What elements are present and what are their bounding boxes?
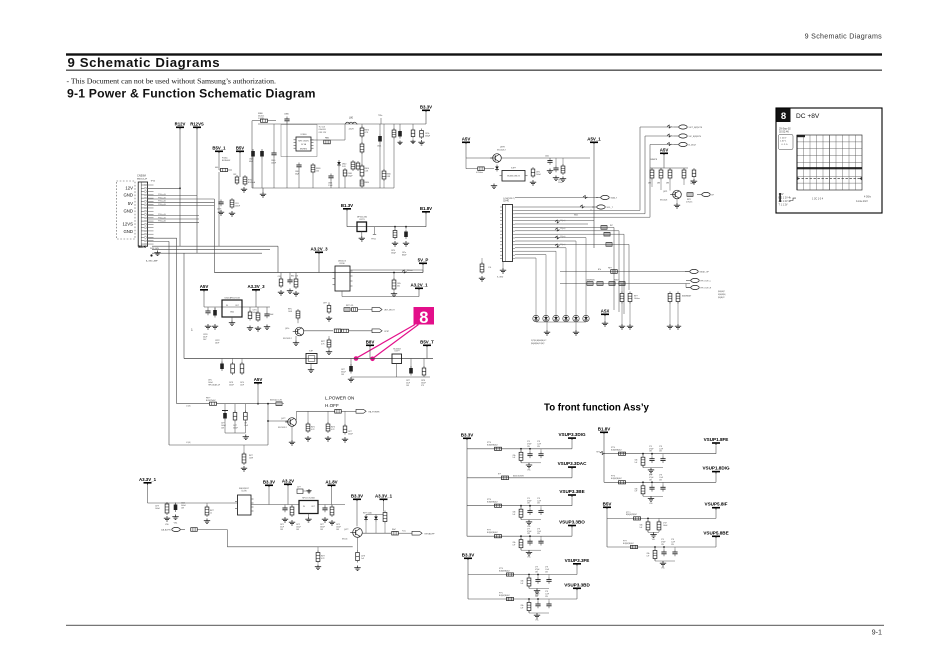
resistor R442 <box>604 232 610 236</box>
capacitor C811 <box>279 277 283 288</box>
resistor R816 <box>561 164 565 175</box>
wire IC841 bottom rail <box>396 364 398 378</box>
ground Q830 <box>295 336 297 341</box>
svg-text:A5V: A5V <box>660 147 669 152</box>
svg-text:VSUP5.8IF: VSUP5.8IF <box>705 502 728 507</box>
flag A5V_1 rt <box>587 136 601 144</box>
svg-text:560pF: 560pF <box>425 136 431 138</box>
wire left bus vertical B <box>176 238 178 404</box>
svg-text:B8V: B8V <box>366 339 375 344</box>
svg-text:PR0g-gN: PR0g-gN <box>158 204 166 206</box>
svg-text:PR0g-gN: PR0g-gN <box>158 214 166 216</box>
svg-text:A3.2V_3: A3.2V_3 <box>310 246 328 251</box>
resistor R441 <box>601 226 607 230</box>
svg-text:1 56: 1 56 <box>488 267 491 269</box>
capacitor C860 <box>271 151 276 158</box>
svg-text:16V: 16V <box>336 529 340 531</box>
svg-text:PR0g-gN: PR0g-gN <box>158 197 166 199</box>
svg-text:C?8: C?8 <box>545 567 548 569</box>
wire B1.3V drop <box>346 211 348 227</box>
svg-text:10V: 10V <box>659 479 663 481</box>
flag VSUP1.8DIG <box>702 466 729 474</box>
resistor R423 <box>290 505 294 517</box>
svg-text:R12V: R12V <box>175 121 186 126</box>
arrow connector KEY_OFF <box>412 531 422 535</box>
resistor R433 <box>316 551 320 564</box>
capacitor VSUP3.3BE C2 <box>527 508 532 515</box>
svg-text:561: 561 <box>397 286 400 288</box>
wire A3.3V_3 drop <box>255 292 257 307</box>
svg-text:C8??: C8?? <box>323 303 327 305</box>
svg-text:R??: R?? <box>498 474 501 476</box>
svg-text:KSC1623: KSC1623 <box>660 200 667 202</box>
svg-text:1.2nF: 1.2nF <box>537 443 541 445</box>
svg-text:FT? 1: FT? 1 <box>626 512 630 514</box>
svg-text:AVT_MOUT: AVT_MOUT <box>385 309 396 312</box>
capacitor C434 <box>356 551 360 563</box>
connector CN50M labels <box>122 185 133 234</box>
resistor R425 <box>330 505 334 517</box>
svg-text:5.6V: 5.6V <box>342 166 346 168</box>
svg-text:B3.3V: B3.3V <box>263 479 275 484</box>
ground R409 <box>241 466 247 471</box>
flag B5V <box>236 145 244 153</box>
svg-text:440: 440 <box>215 167 218 169</box>
callout leader line 1 <box>356 325 415 359</box>
wire Q402 bottom row <box>227 546 352 548</box>
wire main bus <box>214 272 423 274</box>
svg-text:B?b: B?b <box>598 269 601 271</box>
wire row VSUP5.8BE <box>607 546 716 548</box>
legend box frame <box>776 108 882 213</box>
test point TPCb <box>374 227 376 235</box>
ground VSUP5.8BE <box>654 559 656 562</box>
flag VSUP5.8IF <box>705 502 728 510</box>
arrow connector FP80 <box>372 329 382 333</box>
ground CN40 <box>502 262 504 269</box>
svg-text:5V(pw): 5V(pw) <box>560 236 566 238</box>
svg-text:4.7Kohm: 4.7Kohm <box>476 172 483 174</box>
svg-text:D(T)B (M)00(M)-4?: D(T)B (M)00(M)-4? <box>531 340 546 342</box>
svg-text:BMD04-4P: BMD04-4P <box>137 179 148 181</box>
svg-text:Q4??: Q4?? <box>281 418 285 420</box>
svg-text:C8b: C8b <box>635 460 638 462</box>
ground ASX <box>604 317 606 322</box>
resistor RC1 <box>650 168 654 180</box>
wire bundle row 3 <box>152 252 262 254</box>
svg-text:P4kw: P4kw <box>402 531 407 533</box>
svg-text:16V: 16V <box>280 529 284 531</box>
resistor RB10 <box>360 164 364 178</box>
svg-text:5V(pw): 5V(pw) <box>560 220 566 222</box>
ground VSUP3.3FE <box>528 586 530 589</box>
svg-text:100pF: 100pF <box>348 175 354 177</box>
svg-text:L.POWER ON: L.POWER ON <box>325 396 354 401</box>
wire to AVT arrow <box>358 309 372 311</box>
svg-text:R8?? 47k: R8?? 47k <box>346 305 353 307</box>
svg-text:OUT: OUT <box>311 506 315 508</box>
svg-text:MP11 17D-SB4: MP11 17D-SB4 <box>302 498 314 500</box>
ground C823 <box>218 210 224 215</box>
oval connector VIC_BRN <box>674 134 702 138</box>
resistor R446 <box>628 292 632 304</box>
header thick rule <box>66 53 882 55</box>
svg-text:PR0g-gN: PR0g-gN <box>158 201 166 203</box>
resistor R431 <box>392 531 399 535</box>
wire flag drop VSUP3.3DIG <box>571 440 573 449</box>
wire CN50M 12V row <box>148 187 180 189</box>
wire CN40 fan <box>515 210 650 258</box>
svg-text:BL(M)P(M)40Z: BL(M)P(M)40Z <box>623 543 634 545</box>
wire A5V_1 vertical <box>593 145 595 249</box>
svg-text:OUT: OUT <box>235 305 240 307</box>
svg-text:IC810: IC810 <box>339 263 345 265</box>
wire flag drop VSUP3.3DAC <box>571 469 573 478</box>
wire row VSUP3.3BD <box>468 598 577 600</box>
svg-text:KEY(B)OFF: KEY(B)OFF <box>425 533 436 535</box>
svg-text:VSUP3.3BE: VSUP3.3BE <box>559 489 584 494</box>
resistor RB71 <box>360 142 364 154</box>
svg-text:(M)?wGpw 1.2M: (M)?wGpw 1.2M <box>270 400 282 402</box>
svg-text:C?8: C?8 <box>659 446 662 448</box>
ground C434 <box>354 566 360 571</box>
capacitor C411 <box>174 503 178 513</box>
flag A5V mid <box>200 284 209 292</box>
svg-text:5V(pw): 5V(pw) <box>560 244 566 246</box>
svg-text:BL(M)P(M)40Z: BL(M)P(M)40Z <box>487 445 498 447</box>
svg-text:CN50M: CN50M <box>137 174 146 178</box>
resistor FB843 <box>334 329 341 333</box>
resistor R809 <box>478 167 485 171</box>
svg-text:FT?x: FT?x <box>499 592 503 594</box>
svg-text:CN40: CN40 <box>503 201 510 203</box>
svg-text:1uF: 1uF <box>635 491 638 493</box>
flag B1.3V <box>341 203 353 211</box>
arrow connector HA_POWER <box>356 409 366 413</box>
svg-text:(M)SW(M)8?: (M)SW(M)8? <box>682 296 691 298</box>
wire CN50M signal row 1 <box>148 195 197 197</box>
ground R412 <box>204 519 210 524</box>
flag VSUP5.8BE <box>703 530 728 538</box>
resistor VSUP3.3BE C1 <box>519 507 523 519</box>
capacitor C422 <box>282 506 287 513</box>
ground R845 <box>326 350 332 355</box>
wire A5V rt drop <box>465 145 467 159</box>
transistor Q402 <box>350 528 362 538</box>
wire B8V drop <box>369 348 371 359</box>
resistor R440 <box>480 262 484 274</box>
diode D401 <box>364 515 368 522</box>
resistor R412 <box>205 505 209 517</box>
wire left bus vertical A <box>213 199 215 273</box>
wire lpower caps rail <box>224 421 226 434</box>
ground C421 <box>306 489 311 493</box>
svg-text:4.5(M): 4.5(M) <box>186 442 191 444</box>
svg-text:02:52:46: 02:52:46 <box>779 131 789 134</box>
wire row VSUP3.3DAC <box>467 477 572 479</box>
svg-text:(M)(M)4?: (M)(M)4? <box>718 297 725 299</box>
ground PSU rail <box>262 188 264 192</box>
flag B5V dist <box>603 501 612 509</box>
svg-text:ASX: ASX <box>601 308 610 313</box>
test point TP8a <box>380 118 382 124</box>
wire bl row2 <box>251 504 299 506</box>
capacitor VSUP3.3BE C3 <box>538 508 543 515</box>
capacitor VSUP1.8FE C3 <box>660 456 665 463</box>
svg-text:To front function Ass’y: To front function Ass’y <box>544 403 650 414</box>
svg-text:ON=5V5: ON=5V5 <box>319 129 326 131</box>
wire IC to L80 <box>310 139 345 141</box>
wire B5V dist vertical <box>606 510 608 548</box>
capacitor C857 <box>240 362 244 375</box>
svg-text:16V: 16V <box>527 503 531 505</box>
IC812 reset <box>500 171 528 182</box>
svg-text:5V 3A: 5V 3A <box>301 143 307 146</box>
flag A5V lpower <box>254 377 263 385</box>
svg-text:- This Document can not be use: - This Document can not be used without … <box>67 77 277 86</box>
svg-text:12VS: 12VS <box>122 222 133 227</box>
svg-text:1.2nF: 1.2nF <box>545 594 549 596</box>
wire bl rail <box>148 502 238 504</box>
svg-text:1uF: 1uF <box>513 545 516 547</box>
resistor R443 <box>606 243 612 247</box>
flag VSUP1.8FE <box>704 437 729 445</box>
svg-text:C(M)WS(M): C(M)WS(M) <box>586 280 595 282</box>
diode D402 <box>374 515 378 522</box>
svg-text:47?pF: 47?pF <box>535 569 540 571</box>
svg-text:C?9: C?9 <box>535 591 538 593</box>
flag R12V <box>175 121 186 129</box>
resistor R845 <box>327 338 331 349</box>
svg-text:VSUP3.3DIG: VSUP3.3DIG <box>558 432 585 437</box>
svg-text:16V: 16V <box>296 529 300 531</box>
svg-text:16V: 16V <box>535 572 539 574</box>
wire A5V row <box>203 292 205 307</box>
svg-text:16V: 16V <box>527 533 531 535</box>
svg-text:C8b: C8b <box>521 581 524 583</box>
svg-text:KSC16: KSC16 <box>342 539 347 541</box>
svg-text:BL(M)P(M)40Z: BL(M)P(M)40Z <box>499 570 510 572</box>
svg-text:16nF: 16nF <box>215 343 220 345</box>
svg-text:B1.8V: B1.8V <box>598 426 611 431</box>
IC841 converter <box>392 354 402 364</box>
svg-text:C8b: C8b <box>647 553 650 555</box>
scope trace <box>797 167 862 169</box>
svg-text:SCL_7: SCL_7 <box>607 207 614 209</box>
scope bottom readout <box>779 193 872 206</box>
svg-text:KSC1623-Y: KSC1623-Y <box>283 338 293 340</box>
svg-text:1.3V 1: 1.3V 1 <box>780 141 787 143</box>
ground R822 <box>241 187 247 192</box>
flag VSUP3.3BO <box>559 520 585 528</box>
svg-text:L80: L80 <box>349 117 354 120</box>
transistor Q808 <box>490 154 501 163</box>
svg-text:1uF: 1uF <box>521 583 524 585</box>
flag VSUP3.3DAC <box>558 461 588 469</box>
svg-text:47?pF: 47?pF <box>649 448 654 450</box>
svg-text:R4?: R4? <box>610 225 613 227</box>
svg-text:C?9: C?9 <box>661 539 664 541</box>
svg-text:B5V: B5V <box>236 145 244 150</box>
capacitor C410 <box>165 502 169 515</box>
wire bundle drop <box>277 246 279 272</box>
svg-text:VSL: VSL <box>535 620 538 622</box>
svg-text:VSUP3.3BO: VSUP3.3BO <box>559 520 585 525</box>
capacitor C823 <box>218 200 223 207</box>
svg-text:B5V_1: B5V_1 <box>212 145 226 150</box>
ground C408 <box>342 437 348 442</box>
wire PSU top rail <box>258 123 426 125</box>
svg-text:FT?7: FT?7 <box>623 540 627 542</box>
svg-text:IC8?: IC8? <box>309 351 313 353</box>
svg-text:C?9: C?9 <box>527 441 530 443</box>
flag VSUP3.3BD <box>564 582 590 590</box>
capacitor VSUP3.3FE C3 <box>546 577 551 584</box>
IC801 regulator <box>357 222 367 232</box>
svg-text:1/16W: 1/16W <box>258 118 264 120</box>
capacitor C855 <box>220 362 224 372</box>
svg-text:A3.2V_1: A3.2V_1 <box>410 282 428 287</box>
ground R816 <box>560 177 566 182</box>
svg-text:B(M)(M)P(M)0?: B(M)(M)P(M)0? <box>626 514 637 516</box>
svg-text:C?b?: C?b? <box>663 523 667 525</box>
svg-text:GND: GND <box>123 193 133 198</box>
resistor VSUP1.8DIG C1 <box>641 484 645 496</box>
svg-text:1uF: 1uF <box>513 457 516 459</box>
svg-text:Q8?x: Q8?x <box>285 328 289 330</box>
wire B5V drop <box>239 154 241 178</box>
svg-text:PR0g-gN: PR0g-gN <box>158 217 166 219</box>
wire A3.3V_1 q drop <box>383 502 385 512</box>
svg-text:DC +8V: DC +8V <box>796 113 820 120</box>
ferrite FB401 <box>210 402 217 405</box>
wire B3.3V dist2 vertical <box>467 561 469 600</box>
svg-text:IC4?0: IC4?0 <box>241 490 247 492</box>
svg-text:C81: C81 <box>278 276 281 278</box>
svg-text:1.2nF: 1.2nF <box>659 477 663 479</box>
ground IC801 <box>361 232 363 237</box>
svg-text:4 0S/s: 4 0S/s <box>864 195 872 198</box>
svg-text:1/2W: 1/2W <box>249 458 253 460</box>
ground IC820 <box>231 317 233 321</box>
wire oval drops <box>640 126 674 128</box>
svg-text:KSC1623-Y: KSC1623-Y <box>278 427 288 429</box>
ground C842 <box>397 141 402 145</box>
ferrite FT?6 <box>619 481 626 484</box>
svg-text:C?8: C?8 <box>537 498 540 500</box>
flag A3.3V_1 bl <box>139 477 157 485</box>
svg-text:R(M)?: R(M)? <box>614 280 619 282</box>
capacitor VSUP3.3FE C2 <box>535 577 540 584</box>
resistor pair R841 R842 <box>344 308 350 312</box>
capacitor C817 <box>692 168 696 179</box>
svg-text:B1.8V: B1.8V <box>420 206 432 211</box>
oval connector DA_AGN <box>161 527 185 531</box>
svg-text:FT?6: FT?6 <box>487 499 491 501</box>
svg-text:BL(M)P(M)40Z: BL(M)P(M)40Z <box>487 502 498 504</box>
svg-text:TK?b: TK?b <box>596 452 600 454</box>
svg-text:BL(M)P(M)40Z: BL(M)P(M)40Z <box>499 595 510 597</box>
flag B3.3V q <box>351 493 363 501</box>
capacitor VSUP1.8DIG C3 <box>660 485 665 492</box>
svg-text:PR0g-gN: PR0g-gN <box>158 194 166 196</box>
svg-text:C8b: C8b <box>513 542 516 544</box>
svg-text:47?pF: 47?pF <box>527 500 532 502</box>
svg-text:10nF: 10nF <box>240 384 244 386</box>
svg-text:100K: 100K <box>288 311 293 313</box>
ground Q401 emitter <box>291 427 293 441</box>
resistor R432 <box>191 528 198 532</box>
wire CN50M signal row 6 <box>148 218 199 220</box>
resistor VSUP3.3DIG C1 <box>519 450 523 462</box>
ferrite FB81 <box>221 168 228 171</box>
ground VSUP3.3BE <box>520 517 522 520</box>
ground C836 <box>326 316 332 321</box>
ground Q811 <box>676 199 678 203</box>
resistor R406 <box>306 422 310 433</box>
wire Q402 collector row <box>362 532 391 534</box>
svg-text:16V: 16V <box>320 529 324 531</box>
svg-text:16V: 16V <box>181 507 185 509</box>
resistor R430 <box>383 511 387 524</box>
capacitor C884 <box>328 174 333 181</box>
ground C81t <box>391 292 397 297</box>
svg-text:S_GND: S_GND <box>497 277 504 279</box>
capacitor C403 <box>233 411 237 423</box>
resistor RB40 <box>351 160 355 171</box>
flag B1.8V <box>420 206 432 214</box>
svg-text:C8b: C8b <box>635 488 638 490</box>
svg-text:560pF: 560pF <box>391 252 396 254</box>
svg-text:1.2nF: 1.2nF <box>545 569 549 571</box>
inductor L80 <box>346 122 357 124</box>
flag B1.8V dist <box>598 426 611 434</box>
svg-text:BL(M)P(M)40Z: BL(M)P(M)40Z <box>611 450 622 452</box>
svg-text:4R8: 4R8 <box>648 183 651 185</box>
svg-text:14V: 14V <box>221 427 225 429</box>
wire R831 stub <box>394 227 396 231</box>
wire IC810 right to bus <box>350 269 423 271</box>
flag A5V rt <box>462 136 471 144</box>
svg-text:9?F: 9?F <box>421 385 424 387</box>
wire column drops <box>362 124 413 166</box>
svg-text:VSUP1.8DIG: VSUP1.8DIG <box>702 466 729 471</box>
svg-text:HA_POWER: HA_POWER <box>369 411 380 414</box>
wire B5V_T drop <box>426 348 428 359</box>
svg-text:C8b: C8b <box>640 524 643 526</box>
scope dashed cursor <box>798 178 862 180</box>
resistor RB70 <box>360 126 364 138</box>
resistor C81t <box>392 278 396 291</box>
wire SDA row <box>515 197 598 199</box>
scope graticule <box>797 135 862 190</box>
resistor VSUP5.8IF C2 <box>657 520 661 532</box>
svg-text:FB85: FB85 <box>325 138 329 140</box>
flag A3.2V_1 <box>410 282 428 290</box>
svg-text:GND: GND <box>230 312 235 314</box>
svg-text:C?8: C?8 <box>659 475 662 477</box>
wire flag drop VSUP3.3BO <box>571 528 573 537</box>
callout 8 box <box>414 307 435 327</box>
wire flag drop VSUP3.3FE <box>576 566 578 575</box>
flag B5V_1 <box>212 145 226 153</box>
svg-text:VICT_B(R)V7S: VICT_B(R)V7S <box>689 127 703 129</box>
svg-text:IC8??: IC8?? <box>394 351 399 353</box>
wire CN50M signal row 4 <box>148 205 215 207</box>
svg-text:FT?0: FT?0 <box>611 447 615 449</box>
svg-text:1.2nF: 1.2nF <box>671 542 675 544</box>
svg-text:10nF: 10nF <box>244 425 248 427</box>
